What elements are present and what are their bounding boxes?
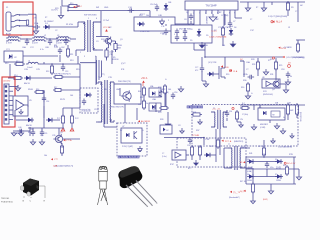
wire bbox=[78, 21, 81, 23]
wire bbox=[164, 137, 204, 139]
wire bbox=[96, 121, 98, 123]
capacitor C34 bbox=[265, 162, 269, 169]
junction bbox=[263, 156, 265, 158]
ground bbox=[268, 188, 273, 194]
inner block bbox=[271, 111, 280, 117]
wire bbox=[223, 14, 225, 26]
svg-text:R?0?: R?0? bbox=[170, 164, 174, 166]
opto U10 box bbox=[160, 125, 172, 134]
wire bbox=[215, 73, 219, 75]
wire bbox=[43, 106, 45, 128]
resistor R51 bbox=[286, 103, 289, 116]
svg-text:3: 3 bbox=[84, 56, 85, 58]
svg-text:6: 6 bbox=[217, 13, 218, 15]
svg-text:T06: T06 bbox=[98, 77, 101, 79]
svg-text:C16: C16 bbox=[174, 92, 177, 94]
wire bbox=[33, 26, 35, 28]
ground bbox=[165, 121, 170, 127]
wire bbox=[203, 138, 205, 146]
inlet pin 1 bbox=[11, 15, 14, 17]
wire bbox=[70, 38, 76, 40]
ground bbox=[263, 69, 268, 75]
J2 pin pad 4 bbox=[5, 99, 7, 101]
svg-text:EAC16: EAC16 bbox=[24, 82, 30, 85]
wire bbox=[255, 176, 277, 178]
wire bbox=[80, 62, 97, 64]
svg-text:C35: C35 bbox=[52, 135, 55, 137]
pin 9 bbox=[234, 10, 236, 14]
svg-text:R25: R25 bbox=[158, 112, 161, 114]
wire bbox=[222, 37, 224, 46]
svg-text:C3: C3 bbox=[96, 41, 98, 43]
top rail wire bbox=[240, 1, 305, 3]
svg-text:U5: U5 bbox=[20, 103, 22, 105]
wire bbox=[244, 147, 250, 149]
resistor R20 bbox=[142, 86, 145, 97]
svg-text:R17B: R17B bbox=[60, 99, 65, 101]
junction bbox=[51, 63, 53, 65]
phase dot bbox=[100, 83, 102, 85]
svg-text:4: 4 bbox=[96, 18, 97, 20]
capacitor C14 bbox=[42, 96, 46, 103]
bridge mid wire bbox=[246, 168, 294, 170]
svg-text:D1 1N4007: D1 1N4007 bbox=[44, 21, 54, 23]
transformer T3 bbox=[228, 146, 244, 170]
wire bbox=[240, 60, 244, 62]
svg-text:C?0: C?0 bbox=[262, 154, 265, 156]
svg-text:C2 2n2: C2 2n2 bbox=[103, 20, 109, 22]
svg-text:C34: C34 bbox=[40, 135, 43, 137]
branch wire bbox=[62, 5, 80, 7]
svg-text:R?C?: R?C? bbox=[140, 14, 145, 16]
capacitor C30 bbox=[258, 106, 262, 113]
svg-text:U2: U2 bbox=[8, 58, 10, 60]
wire bbox=[62, 125, 64, 128]
svg-text:R28: R28 bbox=[252, 64, 255, 66]
net arrow TR2 bbox=[51, 158, 53, 160]
svg-text:CY2: CY2 bbox=[30, 47, 34, 49]
inlet pin 3 bbox=[11, 26, 14, 28]
svg-text:EAC30: EAC30 bbox=[26, 124, 32, 127]
bridge bottom wire bbox=[246, 183, 296, 185]
dashed box opto bbox=[117, 123, 147, 156]
svg-text:10k: 10k bbox=[146, 15, 149, 17]
J2 pin pad 3 bbox=[5, 95, 7, 97]
wire to fuse 3 bbox=[20, 25, 29, 27]
resistor R18 bbox=[61, 114, 64, 125]
label cn2 (ci ji fan kui dian lu +5V) bbox=[118, 156, 139, 158]
diode D3 bbox=[137, 22, 145, 26]
svg-text:C9: C9 bbox=[198, 29, 200, 31]
svg-text:C2: C2 bbox=[55, 30, 57, 32]
opto U10 led bbox=[163, 128, 166, 132]
svg-text:L4: L4 bbox=[28, 61, 30, 63]
pad2 bbox=[272, 57, 274, 59]
bridge top wire bbox=[246, 156, 296, 158]
resistor R4 bbox=[105, 48, 108, 59]
svg-text:D(-): D(-) bbox=[240, 191, 244, 193]
wire bbox=[215, 129, 217, 162]
svg-text:ALCMOM: ALCMOM bbox=[141, 120, 150, 123]
svg-text:C1A: C1A bbox=[34, 22, 39, 25]
svg-text:ALL A: ALL A bbox=[276, 21, 283, 24]
resistor R38 bbox=[235, 110, 238, 121]
J2 pin 2 bbox=[9, 90, 13, 92]
capacitor C10 bbox=[128, 8, 135, 12]
wire bbox=[240, 60, 244, 62]
net arrow VCC A bbox=[105, 29, 108, 32]
resistor R21 bbox=[142, 99, 145, 110]
J2 pin 6 bbox=[9, 109, 13, 111]
svg-text:R20: R20 bbox=[226, 74, 229, 76]
svg-text:4.7mH: 4.7mH bbox=[6, 43, 12, 45]
capacitor C12A bbox=[248, 75, 255, 79]
wire bbox=[223, 148, 225, 168]
svg-text:SENSOR: SENSOR bbox=[205, 16, 207, 25]
resistor R28 bbox=[256, 60, 259, 71]
svg-text:SR05/90: SR05/90 bbox=[112, 59, 119, 61]
svg-text:R21: R21 bbox=[140, 97, 143, 99]
wire bbox=[297, 2, 299, 22]
ground bbox=[296, 174, 301, 180]
svg-text:R06: R06 bbox=[138, 91, 141, 93]
svg-text:R29: R29 bbox=[270, 59, 273, 61]
wire bbox=[191, 155, 193, 160]
J2 pin 3 bbox=[9, 95, 13, 97]
fuse F1 bbox=[27, 20, 29, 25]
op-amp U5 bbox=[16, 100, 24, 110]
pin 6 bbox=[217, 10, 219, 14]
svg-text:(10W R): (10W R) bbox=[240, 147, 247, 149]
wire bbox=[204, 43, 206, 57]
junction bbox=[26, 38, 28, 40]
wire bbox=[15, 130, 30, 132]
leader bbox=[23, 196, 25, 198]
diode D5 bbox=[197, 29, 201, 37]
IC U3 box bbox=[114, 84, 141, 104]
svg-text:+5C A: +5C A bbox=[141, 77, 148, 80]
transistor Q1 bbox=[104, 37, 112, 46]
svg-text:G1: G1 bbox=[246, 11, 249, 13]
transformer T2 bbox=[98, 80, 114, 124]
resistor R12 bbox=[14, 62, 25, 65]
red circle 2X bbox=[288, 65, 291, 68]
AC inlet J1 bbox=[6, 12, 11, 31]
wire bbox=[29, 127, 31, 136]
svg-text:1: 1 bbox=[88, 18, 89, 20]
wire bbox=[104, 126, 117, 128]
ground bbox=[245, 5, 250, 11]
svg-text:PBLDTN4Y(TF): PBLDTN4Y(TF) bbox=[118, 81, 131, 83]
wire bbox=[257, 69, 259, 76]
ground bbox=[261, 5, 266, 11]
switch contact 1 bbox=[14, 15, 19, 16]
svg-text:R?: R? bbox=[256, 7, 258, 9]
ground bbox=[203, 81, 208, 87]
capacitor C9 bbox=[183, 29, 187, 36]
wire bbox=[287, 114, 289, 120]
J2 pin pad 5 bbox=[5, 104, 7, 106]
svg-text:C?: C? bbox=[162, 153, 164, 155]
pin 3 bbox=[199, 10, 201, 14]
svg-text:C6: C6 bbox=[186, 12, 188, 14]
wire bbox=[226, 118, 228, 121]
resistor R40 bbox=[262, 146, 265, 157]
wire bbox=[229, 14, 231, 22]
svg-text:R28: R28 bbox=[251, 59, 254, 61]
net arrow D- bbox=[243, 190, 245, 192]
svg-text:TNY264P: TNY264P bbox=[205, 4, 217, 8]
connector J2 bbox=[4, 84, 9, 124]
svg-text:104: 104 bbox=[70, 95, 73, 97]
resistor R30 bbox=[246, 82, 249, 93]
capacitor C36 bbox=[31, 130, 35, 137]
svg-text:CL A: CL A bbox=[233, 70, 238, 73]
pin 1 bbox=[187, 10, 189, 14]
net arrow PCA bbox=[221, 140, 223, 142]
ground bbox=[194, 160, 198, 165]
resistor R16 bbox=[34, 90, 45, 93]
contact node 1 bbox=[19, 14, 21, 16]
wire bbox=[296, 114, 298, 118]
resistor R34 bbox=[190, 145, 193, 157]
mosfet Q6 bbox=[219, 66, 225, 79]
svg-text:5: 5 bbox=[95, 56, 96, 58]
svg-text:4.0mH: 4.0mH bbox=[32, 43, 38, 45]
wire bbox=[113, 82, 115, 84]
wire bbox=[103, 104, 105, 127]
wire bbox=[161, 91, 166, 93]
wire bbox=[17, 85, 19, 86]
diode D21 bbox=[207, 72, 215, 76]
net arrow VAC bbox=[73, 6, 75, 8]
wire bbox=[71, 108, 73, 116]
wire bbox=[111, 50, 113, 56]
J2 pin 5 bbox=[9, 104, 13, 106]
capacitor C9B bbox=[183, 35, 187, 42]
net arrow ALC bbox=[138, 120, 140, 122]
wire bbox=[62, 108, 64, 116]
svg-text:CY1: CY1 bbox=[6, 49, 10, 51]
IC U1 TNY264P bbox=[185, 1, 238, 10]
transistor Q5 bbox=[53, 134, 62, 144]
wire bbox=[287, 2, 289, 3]
resistor R33 bbox=[296, 42, 299, 53]
wire bbox=[167, 112, 169, 121]
svg-text:1.(B2LCT0M)(5V0B): 1.(B2LCT0M)(5V0B) bbox=[209, 37, 227, 39]
svg-text:470u: 470u bbox=[270, 167, 274, 169]
resistor R15 bbox=[53, 75, 64, 78]
contact node 3 bbox=[19, 25, 21, 27]
svg-text:R?: R? bbox=[45, 17, 47, 19]
svg-text:C6C: C6C bbox=[61, 47, 65, 49]
svg-text:次级反馈: 次级反馈 bbox=[81, 108, 91, 112]
wire bbox=[119, 88, 121, 96]
wire bbox=[113, 120, 115, 122]
resistor R4B bbox=[191, 113, 202, 116]
wire bbox=[32, 77, 52, 79]
resistor R52 bbox=[295, 103, 298, 116]
svg-text:D7: D7 bbox=[275, 174, 277, 176]
wire bbox=[112, 40, 116, 42]
svg-text:R4? 10?: R4? 10? bbox=[240, 181, 246, 183]
ground bbox=[15, 85, 20, 91]
svg-text:(0.6A): (0.6A) bbox=[247, 170, 252, 173]
earth ground bbox=[33, 28, 38, 34]
diode box U3B bbox=[149, 103, 161, 111]
junction bbox=[49, 38, 51, 40]
svg-text:4M2: 4M2 bbox=[290, 110, 293, 112]
svg-text:R13: R13 bbox=[70, 60, 73, 62]
svg-text:6: 6 bbox=[116, 123, 117, 125]
leader line bbox=[44, 186, 46, 198]
svg-text:1.0mH: 1.0mH bbox=[27, 67, 33, 69]
wire bbox=[212, 154, 216, 156]
wire bbox=[263, 140, 265, 143]
wire bbox=[143, 95, 145, 101]
ground bbox=[180, 128, 184, 133]
ground bbox=[271, 138, 275, 143]
net arrow B1 bbox=[243, 161, 245, 163]
leader line bbox=[39, 185, 45, 187]
wire bbox=[164, 93, 166, 106]
svg-text:2: 2 bbox=[168, 20, 169, 22]
svg-text:(B4B4TN R): (B4B4TN R) bbox=[234, 141, 244, 143]
rail wire bbox=[240, 104, 305, 106]
capacitor C11 bbox=[164, 29, 168, 36]
svg-text:D6: D6 bbox=[234, 27, 236, 29]
wire to transformer bbox=[51, 26, 78, 28]
resistor R14 bbox=[12, 76, 23, 79]
wire bbox=[43, 90, 45, 118]
wire bbox=[77, 56, 79, 64]
wire bbox=[226, 110, 228, 113]
pad4 bbox=[284, 162, 286, 164]
svg-text:L1: L1 bbox=[20, 35, 22, 37]
opto led U7 bbox=[126, 133, 129, 137]
wire bbox=[253, 105, 255, 110]
wire bbox=[100, 22, 102, 37]
net arrow +5C bbox=[142, 81, 145, 83]
svg-text:4.7u: 4.7u bbox=[40, 49, 44, 51]
svg-text:R2: R2 bbox=[109, 27, 111, 29]
wire bbox=[61, 153, 63, 156]
wire bbox=[136, 108, 138, 120]
phase dot bbox=[93, 48, 95, 50]
svg-text:D5: D5 bbox=[190, 40, 192, 42]
capacitor C6A bbox=[25, 39, 29, 46]
ground bbox=[11, 130, 16, 136]
transistor Q3 bbox=[121, 90, 131, 101]
wire bbox=[106, 48, 108, 50]
bus wire VCC bbox=[68, 10, 150, 12]
svg-text:1: 1 bbox=[174, 34, 175, 36]
inductor L4 bbox=[26, 62, 40, 64]
capacitor C12 bbox=[58, 48, 62, 55]
inductor L2 bbox=[32, 37, 46, 41]
+5V rail wire bbox=[205, 56, 283, 58]
opamp U6 bbox=[175, 152, 181, 158]
svg-text:TC?04B: TC?04B bbox=[192, 135, 200, 137]
svg-text:C8: C8 bbox=[190, 29, 192, 31]
wire bbox=[201, 64, 203, 66]
wire bbox=[35, 14, 37, 29]
svg-text:R26: R26 bbox=[160, 119, 163, 121]
wire bbox=[62, 76, 80, 78]
svg-text:R16B: R16B bbox=[28, 89, 33, 91]
svg-text:(C-BR): (C-BR) bbox=[260, 127, 266, 129]
svg-text:C?0B: C?0B bbox=[160, 33, 165, 35]
net arrow CLA bbox=[230, 69, 232, 71]
pin 2 bbox=[193, 10, 195, 14]
wire bbox=[236, 119, 238, 122]
svg-text:J3: J3 bbox=[288, 27, 290, 29]
svg-text:1N5B: 1N5B bbox=[276, 180, 281, 182]
dashed box CV/CC bbox=[192, 105, 298, 147]
wire bbox=[175, 23, 188, 25]
svg-text:4: 4 bbox=[205, 13, 206, 15]
svg-text:PCBCE MCU: PCBCE MCU bbox=[1, 202, 14, 204]
svg-text:5: 5 bbox=[211, 13, 212, 15]
wire bbox=[187, 14, 189, 24]
net arrow TR1 bbox=[63, 139, 65, 141]
svg-text:R5: R5 bbox=[113, 57, 115, 59]
svg-text:1k: 1k bbox=[146, 103, 148, 105]
svg-text:R22: R22 bbox=[162, 89, 165, 91]
svg-text:C15B: C15B bbox=[94, 109, 99, 111]
dashed snubber box bbox=[80, 88, 98, 113]
svg-text:CY3: CY3 bbox=[54, 47, 58, 49]
highlight box (LED connector) bbox=[2, 77, 15, 127]
net arrow ALL A bbox=[272, 21, 274, 23]
ground bbox=[209, 14, 217, 21]
svg-text:R41: R41 bbox=[249, 153, 252, 155]
resistor R17 bbox=[53, 88, 63, 91]
svg-text:M08 RB12: M08 RB12 bbox=[260, 124, 268, 126]
wire bbox=[259, 105, 261, 108]
diode D1 bbox=[43, 25, 51, 29]
svg-text:DC+1.5V: DC+1.5V bbox=[287, 163, 296, 165]
wire bbox=[115, 50, 117, 53]
wire bbox=[75, 50, 77, 56]
diode in U3B bbox=[152, 105, 155, 109]
wire to fuse 1 bbox=[20, 14, 29, 16]
wire bbox=[63, 107, 80, 109]
svg-text:Q4: Q4 bbox=[272, 89, 275, 91]
svg-text:C?04 R?0B: C?04 R?0B bbox=[140, 31, 150, 33]
resistor R13 bbox=[50, 64, 53, 75]
TO-92 transistor photo bbox=[118, 166, 157, 207]
svg-text:C?: C? bbox=[250, 19, 252, 21]
svg-text:TMCOM-: TMCOM- bbox=[1, 198, 10, 200]
ground bbox=[274, 123, 279, 129]
wire bbox=[67, 6, 69, 11]
IC U2 box bbox=[4, 51, 23, 62]
capacitor C37 bbox=[40, 130, 44, 137]
capacitor C8B bbox=[175, 35, 179, 42]
label cn3 (heng liu heng ya dian lu) bbox=[187, 106, 203, 108]
optocoupler U3A bbox=[149, 88, 162, 97]
ground bbox=[290, 133, 294, 138]
ground bbox=[18, 130, 23, 136]
wire bbox=[63, 89, 80, 91]
inductor L1 bbox=[6, 37, 20, 41]
wire bbox=[28, 127, 64, 129]
svg-text:1.2(3.0B2B4RN): 1.2(3.0B2B4RN) bbox=[278, 147, 292, 149]
net arrow C3B bbox=[221, 65, 223, 67]
wire bbox=[297, 40, 299, 44]
svg-text:C40: C40 bbox=[16, 133, 19, 135]
